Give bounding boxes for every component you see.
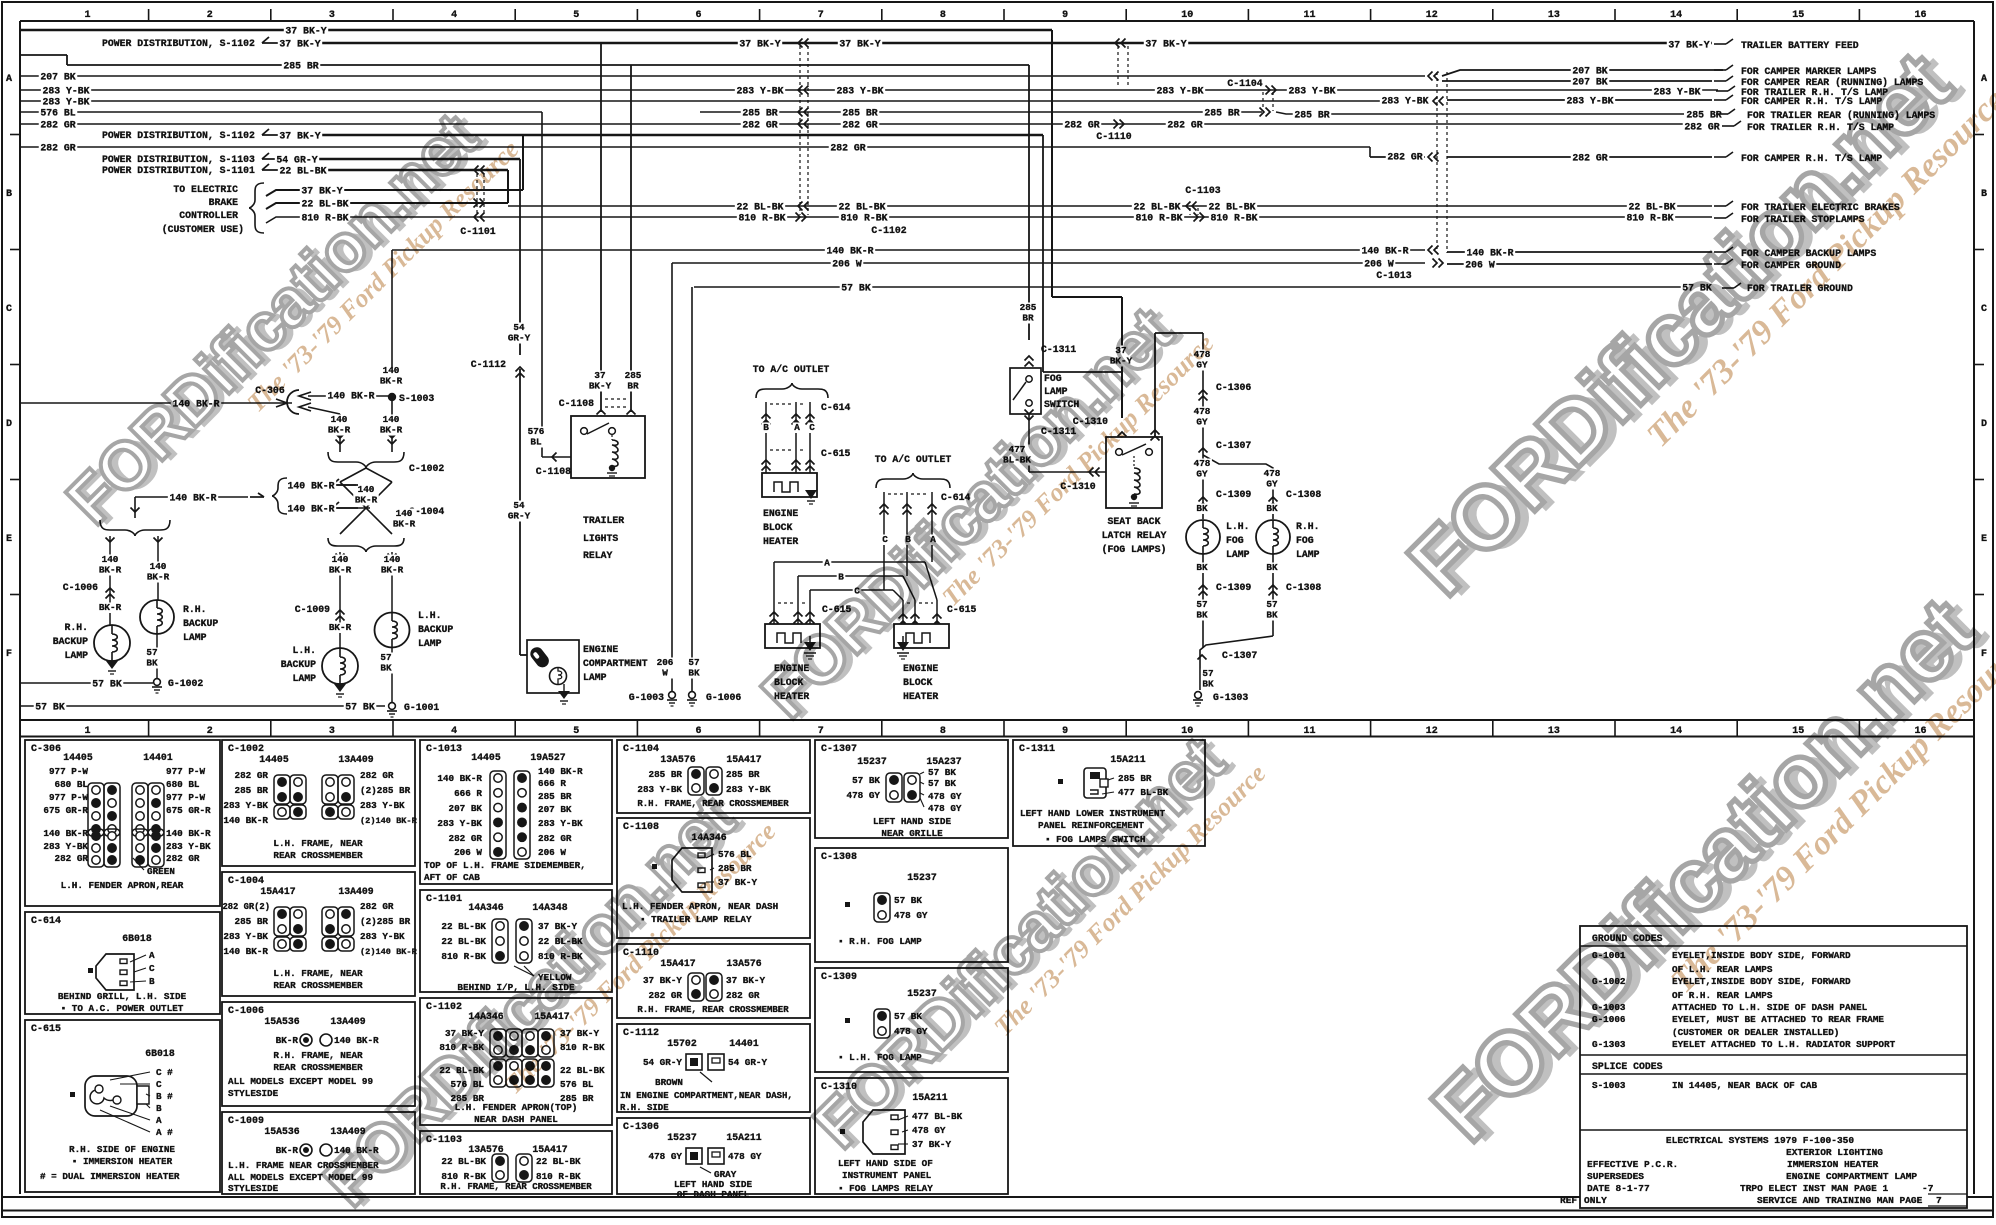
svg-text:15A417: 15A417 <box>260 886 295 897</box>
svg-text:D: D <box>6 419 12 430</box>
svg-text:ONLY: ONLY <box>1584 1195 1607 1206</box>
svg-text:12: 12 <box>1426 10 1438 21</box>
svg-text:15A237: 15A237 <box>926 756 961 767</box>
wire 37 BK-Y to brake controller <box>266 190 523 196</box>
svg-text:W: W <box>662 668 668 679</box>
svg-text:282 GR: 282 GR <box>235 770 269 781</box>
svg-text:BK-R: BK-R <box>393 519 416 530</box>
svg-text:2: 2 <box>207 726 213 737</box>
svg-text:283 Y-BK: 283 Y-BK <box>1653 87 1700 98</box>
LH lamp1 ground <box>334 684 346 692</box>
ruler mid tick <box>759 721 761 736</box>
connector C-1308 chevron bottom <box>1269 585 1278 590</box>
title page underlines <box>1928 1193 1967 1195</box>
connector C-1002 brace <box>328 452 366 468</box>
LH lamp wire 2 <box>391 552 393 612</box>
title block divider <box>1580 1129 1967 1131</box>
svg-text:478 GY: 478 GY <box>894 910 928 921</box>
svg-text:C-614: C-614 <box>31 916 61 927</box>
svg-text:810 R-BK: 810 R-BK <box>1626 213 1673 224</box>
207 BK split to marker lamps <box>1442 70 1723 76</box>
svg-text:283 Y-BK: 283 Y-BK <box>637 784 682 795</box>
row boundary tick right <box>1974 364 1984 366</box>
svg-text:285: 285 <box>1020 302 1037 313</box>
svg-text:57 BK: 57 BK <box>894 895 922 906</box>
ruler mid tick <box>1858 721 1860 736</box>
engine compartment lamp bulb <box>528 645 552 670</box>
svg-text:37 BK-Y: 37 BK-Y <box>912 1139 951 1150</box>
wire 206 W vertical <box>671 263 673 691</box>
svg-text:478 GY: 478 GY <box>912 1125 946 1136</box>
bottom band <box>2 1196 1993 1198</box>
connector C-1101 dashes <box>476 174 478 214</box>
svg-text:37 BK-Y: 37 BK-Y <box>739 39 780 50</box>
svg-text:7: 7 <box>1936 1195 1942 1206</box>
svg-text:C-1112: C-1112 <box>623 1028 659 1039</box>
svg-text:BK: BK <box>1266 610 1278 621</box>
svg-text:6: 6 <box>695 726 701 737</box>
row boundary tick left <box>10 249 20 251</box>
svg-text:C #: C # <box>156 1067 173 1078</box>
svg-text:57 BK: 57 BK <box>841 283 871 294</box>
svg-text:5: 5 <box>573 10 579 21</box>
svg-text:L.H. FRAME, NEAR: L.H. FRAME, NEAR <box>273 838 363 849</box>
svg-text:285 BR: 285 BR <box>842 108 877 119</box>
C-1306 gray note <box>700 1167 711 1173</box>
svg-text:B #: B # <box>156 1091 173 1102</box>
row boundary tick left <box>10 594 20 596</box>
svg-text:282 GR: 282 GR <box>449 833 483 844</box>
ground G-1003 <box>669 692 676 699</box>
svg-text:LEFT HAND SIDE: LEFT HAND SIDE <box>873 816 952 827</box>
ruler top tick <box>1247 9 1249 21</box>
label 57 BK vertical <box>687 658 701 679</box>
svg-text:L.H.: L.H. <box>418 610 442 621</box>
label 57 BK RH <box>1265 600 1279 621</box>
wire 140 BK-R row <box>392 249 1425 251</box>
connector C-615 dashes 2 <box>778 602 794 604</box>
svg-text:ALL MODELS EXCEPT MODEL 99: ALL MODELS EXCEPT MODEL 99 <box>228 1076 373 1087</box>
svg-text:14A348: 14A348 <box>532 902 567 913</box>
svg-text:285 BR: 285 BR <box>538 791 572 802</box>
heater1 wire B <box>765 402 767 473</box>
label 57 BK LH <box>1195 600 1209 621</box>
ruler top tick <box>1492 9 1494 21</box>
svg-text:G-1006: G-1006 <box>706 692 741 703</box>
svg-text:GY: GY <box>1266 479 1278 490</box>
svg-text:282 GR: 282 GR <box>1064 120 1099 131</box>
svg-text:478: 478 <box>1194 458 1211 469</box>
svg-text:140 BK-R: 140 BK-R <box>826 246 873 257</box>
svg-text:C-1108: C-1108 <box>559 398 594 409</box>
svg-text:282 GR: 282 GR <box>55 853 89 864</box>
svg-text:A: A <box>156 1115 162 1126</box>
svg-text:C-1002: C-1002 <box>409 463 444 474</box>
wire 810 R-BK bus continue <box>1500 216 1712 218</box>
svg-text:57: 57 <box>1266 599 1277 610</box>
svg-text:37 BK-Y: 37 BK-Y <box>301 186 342 197</box>
svg-text:576: 576 <box>528 426 545 437</box>
svg-text:283 Y-BK: 283 Y-BK <box>538 818 583 829</box>
connector C-1308 chevron top <box>1269 497 1278 502</box>
svg-text:GY: GY <box>1196 417 1208 428</box>
engine block heater 2 box <box>765 624 820 648</box>
lamp R.H. BACKUP LAMP 2 <box>140 600 174 634</box>
svg-text:G-1003: G-1003 <box>629 692 664 703</box>
engine compartment lamp ground <box>563 684 565 691</box>
ruler top tick <box>514 9 516 21</box>
row boundary tick right <box>1974 594 1984 596</box>
svg-text:15A536: 15A536 <box>264 1016 299 1027</box>
wire 57 BK row <box>694 286 1697 288</box>
svg-text:576 BL: 576 BL <box>40 108 75 119</box>
svg-text:A: A <box>6 74 12 85</box>
svg-text:14: 14 <box>1670 726 1682 737</box>
C-1311 dot <box>1058 779 1063 784</box>
svg-text:BK-R: BK-R <box>276 1035 299 1046</box>
svg-text:BLOCK: BLOCK <box>763 522 793 533</box>
svg-text:▪ R.H. FOG LAMP: ▪ R.H. FOG LAMP <box>838 936 922 947</box>
svg-text:GREEN: GREEN <box>147 866 175 877</box>
heater1 wire A <box>795 402 797 473</box>
svg-text:57 BK: 57 BK <box>35 702 65 713</box>
connector C-1004 brace <box>328 538 366 552</box>
branch to RH fog lamp <box>1203 455 1273 519</box>
svg-text:B: B <box>156 1103 162 1114</box>
svg-text:285 BR: 285 BR <box>649 769 683 780</box>
svg-text:282 GR: 282 GR <box>40 120 75 131</box>
svg-text:285 BR: 285 BR <box>235 916 269 927</box>
svg-text:TOP OF L.H. FRAME SIDEMEMBER,: TOP OF L.H. FRAME SIDEMEMBER, <box>424 860 586 871</box>
svg-text:BK-R: BK-R <box>329 622 352 633</box>
ruler top tick <box>1370 9 1372 21</box>
svg-text:C-1013: C-1013 <box>426 744 462 755</box>
svg-text:BK: BK <box>146 658 158 669</box>
svg-text:282 GR: 282 GR <box>1167 120 1202 131</box>
wire 54 GR-Y row (S-1103) <box>262 153 269 159</box>
svg-text:D: D <box>1981 419 1987 430</box>
svg-text:FOG: FOG <box>1296 535 1314 546</box>
C-1101 yellow note <box>514 966 534 976</box>
C-614 pin labels <box>130 955 146 962</box>
svg-text:INSTRUMENT PANEL: INSTRUMENT PANEL <box>842 1170 932 1181</box>
svg-text:C-1309: C-1309 <box>1216 489 1251 500</box>
svg-text:977 P-W: 977 P-W <box>49 792 88 803</box>
svg-text:810 R-BK: 810 R-BK <box>1135 213 1182 224</box>
svg-text:C: C <box>149 963 155 974</box>
svg-text:37 BK-Y: 37 BK-Y <box>726 975 765 986</box>
svg-text:13A409: 13A409 <box>330 1016 365 1027</box>
svg-text:810 R-BK: 810 R-BK <box>1210 213 1257 224</box>
svg-text:BK-Y: BK-Y <box>589 381 612 392</box>
svg-text:(2)140 BK-R: (2)140 BK-R <box>360 947 418 957</box>
C-615 dot <box>70 1092 75 1097</box>
A/C outlet brace 1 <box>756 383 792 398</box>
label 37 BK-Y trailer relay <box>587 371 612 392</box>
svg-text:R.H.: R.H. <box>64 622 88 633</box>
svg-text:S-1003: S-1003 <box>1592 1080 1626 1091</box>
heater1 pin letters <box>762 423 771 434</box>
svg-text:IN 14405, NEAR BACK OF CAB: IN 14405, NEAR BACK OF CAB <box>1672 1080 1817 1091</box>
label 57 BK lh2 <box>379 653 393 674</box>
svg-text:37: 37 <box>594 370 605 381</box>
svg-text:810 R-BK: 810 R-BK <box>840 213 887 224</box>
svg-text:B: B <box>763 422 769 433</box>
svg-text:R.H. SIDE OF ENGINE: R.H. SIDE OF ENGINE <box>69 1144 175 1155</box>
row boundary tick left <box>10 364 20 366</box>
connector C-1307 chevron <box>1199 448 1208 453</box>
svg-text:C-1006: C-1006 <box>228 1006 264 1017</box>
svg-text:BROWN: BROWN <box>655 1077 683 1088</box>
svg-text:G-1001: G-1001 <box>404 702 439 713</box>
svg-text:57 BK: 57 BK <box>345 702 375 713</box>
link row C <box>810 589 893 591</box>
watermark 6 <box>1413 560 1996 1183</box>
svg-text:C-1108: C-1108 <box>536 466 571 477</box>
svg-text:810 R-BK: 810 R-BK <box>536 1171 581 1182</box>
svg-text:REAR CROSSMEMBER: REAR CROSSMEMBER <box>273 1062 363 1073</box>
svg-text:282 GR: 282 GR <box>726 990 760 1001</box>
watermark 4 <box>310 766 782 1225</box>
svg-text:BK: BK <box>1202 679 1214 690</box>
svg-text:37 BK-Y: 37 BK-Y <box>643 975 682 986</box>
svg-text:A: A <box>794 422 800 433</box>
svg-text:LAMP: LAMP <box>183 632 207 643</box>
svg-text:L.H. FRAME, NEAR: L.H. FRAME, NEAR <box>273 968 363 979</box>
connector C-1309 chevron bottom <box>1199 585 1208 590</box>
brake controller brace <box>249 183 264 208</box>
svg-text:EXTERIOR LIGHTING: EXTERIOR LIGHTING <box>1786 1147 1883 1158</box>
svg-text:478 GY: 478 GY <box>928 791 962 802</box>
svg-text:C: C <box>1981 304 1987 315</box>
svg-text:POWER DISTRIBUTION, S-1102: POWER DISTRIBUTION, S-1102 <box>102 130 255 141</box>
wire 207 BK row <box>20 75 1425 77</box>
svg-text:140: 140 <box>150 561 167 572</box>
ruler mid tick <box>636 721 638 736</box>
svg-text:BK-R: BK-R <box>99 602 122 613</box>
ruler top tick <box>1736 9 1738 21</box>
ruler mid tick <box>1003 721 1005 736</box>
svg-text:14405: 14405 <box>63 752 93 763</box>
svg-text:13: 13 <box>1548 10 1560 21</box>
svg-text:C-1004: C-1004 <box>228 876 264 887</box>
svg-text:L.H. FENDER APRON,REAR: L.H. FENDER APRON,REAR <box>61 880 184 891</box>
mid ruler band <box>20 719 1974 721</box>
wire 283 Y-BK row 2 <box>20 100 1430 102</box>
svg-text:283 Y-BK: 283 Y-BK <box>360 800 405 811</box>
svg-text:282 GR: 282 GR <box>360 901 394 912</box>
svg-text:14A346: 14A346 <box>468 902 503 913</box>
svg-text:BACKUP: BACKUP <box>418 624 453 635</box>
svg-text:666 R: 666 R <box>538 778 566 789</box>
wire below fog switch <box>1028 414 1030 472</box>
connector dashes near C-1013 top <box>1117 46 1119 88</box>
heater1 wire C <box>809 402 811 473</box>
ruler top tick <box>1003 9 1005 21</box>
svg-text:B: B <box>149 976 155 987</box>
svg-text:HEATER: HEATER <box>903 691 938 702</box>
svg-text:BK-R: BK-R <box>147 572 170 583</box>
svg-text:207 BK: 207 BK <box>40 72 75 83</box>
connector box C-1112 <box>617 1024 810 1112</box>
wire 478 GY vertical <box>1202 333 1204 519</box>
heater3 ground <box>897 642 909 651</box>
svg-text:BK: BK <box>1196 503 1208 514</box>
fog lamp switch box <box>1010 368 1041 414</box>
label 140 BK-R col2 <box>378 415 403 436</box>
svg-text:206 W: 206 W <box>454 847 482 858</box>
wire 206 W row <box>672 262 1425 264</box>
svg-text:810 R-BK: 810 R-BK <box>441 951 486 962</box>
label 478 GY 4 <box>1262 469 1282 490</box>
trailer relay coil <box>611 435 613 440</box>
svg-text:SEAT BACK: SEAT BACK <box>1108 516 1161 527</box>
svg-text:BK-R: BK-R <box>381 565 404 576</box>
svg-text:54: 54 <box>513 322 525 333</box>
C-306 lower pins <box>88 829 104 867</box>
207 BK to camper rear lamps <box>1442 80 1712 82</box>
svg-text:22 BL-BK: 22 BL-BK <box>1628 202 1675 213</box>
svg-text:BL: BL <box>530 437 542 448</box>
wire S-1003 down <box>391 401 393 452</box>
ground G-1001 <box>389 703 396 710</box>
svg-text:140 BK-R: 140 BK-R <box>287 481 334 492</box>
svg-text:C-1308: C-1308 <box>821 852 857 863</box>
svg-text:(FOG LAMPS): (FOG LAMPS) <box>1102 544 1167 555</box>
svg-text:576 BL: 576 BL <box>560 1079 594 1090</box>
svg-text:282 GR: 282 GR <box>1387 152 1422 163</box>
LH lamp wire 1 <box>339 552 341 648</box>
svg-text:283 Y-BK: 283 Y-BK <box>42 86 89 97</box>
svg-text:BK-R: BK-R <box>380 425 403 436</box>
svg-text:283 Y-BK: 283 Y-BK <box>726 784 771 795</box>
svg-text:BRAKE: BRAKE <box>209 197 239 208</box>
svg-text:57: 57 <box>146 647 157 658</box>
svg-text:BACKUP: BACKUP <box>53 636 88 647</box>
heater3 wire 2 <box>914 600 916 624</box>
crossover X wires <box>340 468 366 482</box>
svg-text:478 GY: 478 GY <box>847 790 881 801</box>
svg-text:140: 140 <box>102 554 119 565</box>
svg-text:LIGHTS: LIGHTS <box>583 533 618 544</box>
connector C-1108 chevrons <box>597 410 606 415</box>
connector box C-1102 <box>420 998 612 1125</box>
ground G-1006 <box>689 692 696 699</box>
wire 285 BR row <box>20 54 67 56</box>
svg-text:140 BK-R: 140 BK-R <box>223 815 268 826</box>
svg-text:282 GR: 282 GR <box>1684 122 1719 133</box>
svg-text:(CUSTOMER USE): (CUSTOMER USE) <box>162 224 244 235</box>
label 285 BR above fog switch <box>1018 303 1038 324</box>
svg-text:54 GR-Y: 54 GR-Y <box>643 1057 682 1068</box>
svg-text:22 BL-BK: 22 BL-BK <box>838 202 885 213</box>
svg-text:15702: 15702 <box>667 1038 697 1049</box>
svg-text:282 GR(2): 282 GR(2) <box>222 902 270 912</box>
svg-text:12: 12 <box>1426 726 1438 737</box>
main frame <box>19 21 21 1194</box>
wire C-306 lower prong down <box>339 414 341 452</box>
relay coil <box>1133 456 1135 468</box>
outlet2 wire A <box>931 492 933 562</box>
svg-text:1: 1 <box>84 10 90 21</box>
svg-text:675 GR-R: 675 GR-R <box>166 805 211 816</box>
label 206 W vertical <box>655 658 675 679</box>
svg-text:A: A <box>824 557 830 568</box>
svg-text:BK: BK <box>688 668 700 679</box>
C-615 pin labels <box>110 1072 150 1080</box>
svg-text:BK-R: BK-R <box>329 565 352 576</box>
svg-text:4: 4 <box>451 10 457 21</box>
svg-text:285 BR: 285 BR <box>283 61 318 72</box>
connector C-1306 chevrons <box>1199 390 1208 395</box>
connector box C-1013 <box>420 740 612 884</box>
row boundary tick left <box>10 479 20 481</box>
ground/splice divider <box>1580 1054 1967 1056</box>
svg-text:140 BK-R: 140 BK-R <box>287 504 334 515</box>
C-1002 lower pins <box>274 805 290 819</box>
link row B <box>798 575 903 577</box>
RH lamp wire 2 <box>157 536 159 600</box>
C-1309 dot <box>845 1018 850 1023</box>
svg-text:5: 5 <box>573 726 579 737</box>
svg-text:57: 57 <box>1196 599 1207 610</box>
engine block heater 1 box <box>762 473 817 497</box>
wire 285 BR mid segment <box>700 111 1262 113</box>
ruler mid tick <box>1492 721 1494 736</box>
ruler top tick <box>270 9 272 21</box>
row boundary tick right <box>1974 479 1984 481</box>
heater2 wire 3 <box>809 590 811 624</box>
connector box C-1310 <box>815 1078 1008 1194</box>
C-1307 bodies <box>886 773 902 802</box>
label 140 BK-R lh1 <box>327 555 352 576</box>
svg-text:477 BL-BK: 477 BL-BK <box>912 1111 963 1122</box>
svg-text:11: 11 <box>1303 10 1315 21</box>
label 54 GR-Y upper <box>506 323 531 344</box>
svg-text:C-1306: C-1306 <box>623 1122 659 1133</box>
svg-text:810 R-BK: 810 R-BK <box>441 1171 486 1182</box>
connector box C-1110 <box>617 944 810 1018</box>
wire 57 BK vertical <box>691 287 693 691</box>
svg-text:57: 57 <box>380 652 391 663</box>
svg-text:37 BK-Y: 37 BK-Y <box>279 131 320 142</box>
svg-text:BACKUP: BACKUP <box>281 659 316 670</box>
label 140 BK-R lh2 <box>379 555 404 576</box>
svg-text:EYELET, MUST BE ATTACHED TO RE: EYELET, MUST BE ATTACHED TO REAR FRAME <box>1672 1014 1884 1025</box>
wire 57 BK G-1002 row <box>20 682 153 684</box>
svg-text:13A409: 13A409 <box>338 886 373 897</box>
svg-text:L.H.: L.H. <box>1226 521 1250 532</box>
wire relay output up <box>1154 333 1156 437</box>
svg-text:-7: -7 <box>1922 1183 1934 1194</box>
svg-text:C-1311: C-1311 <box>1041 344 1076 355</box>
svg-text:G-1303: G-1303 <box>1213 692 1248 703</box>
connector box C-1307 <box>815 740 1008 838</box>
svg-text:C-1101: C-1101 <box>426 894 462 905</box>
svg-text:(2)285 BR: (2)285 BR <box>360 916 411 927</box>
svg-text:B: B <box>6 189 12 200</box>
svg-text:C-1307: C-1307 <box>821 744 857 755</box>
svg-text:6: 6 <box>695 10 701 21</box>
ground G-1002 <box>154 679 161 686</box>
svg-text:8: 8 <box>940 10 946 21</box>
svg-text:285: 285 <box>625 370 642 381</box>
svg-text:BK: BK <box>1266 503 1278 514</box>
svg-text:3: 3 <box>329 726 335 737</box>
svg-text:207 BK: 207 BK <box>538 804 572 815</box>
svg-text:IMMERSION HEATER: IMMERSION HEATER <box>1787 1159 1879 1170</box>
C-1309 body <box>874 1009 890 1038</box>
